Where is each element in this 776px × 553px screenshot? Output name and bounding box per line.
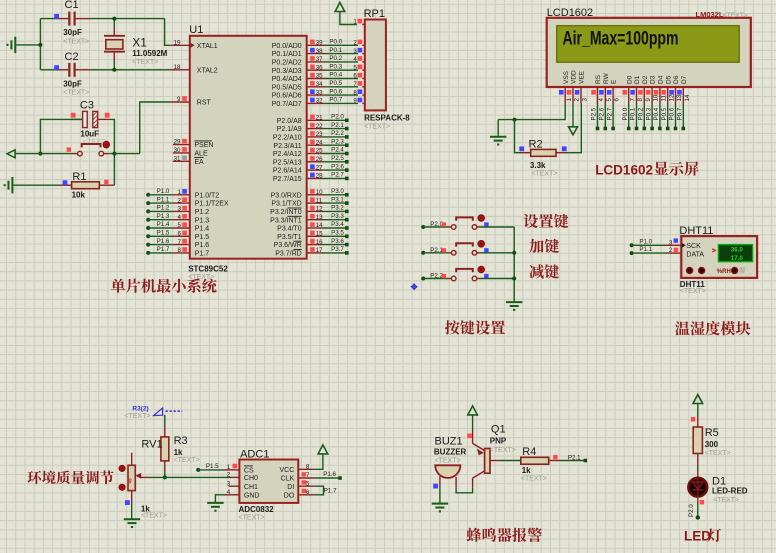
svg-text:3: 3 (669, 239, 673, 246)
svg-text:LED: LED (684, 529, 711, 544)
svg-text:28: 28 (316, 173, 323, 180)
svg-text:DATA: DATA (686, 251, 704, 258)
svg-text:P0.3: P0.3 (329, 63, 342, 70)
svg-text:P2.7: P2.7 (331, 172, 344, 179)
svg-text:D4: D4 (658, 75, 665, 84)
pin 30 ALE (173, 152, 190, 154)
svg-text:P2.1: P2.1 (430, 247, 443, 254)
svg-text:P1.5: P1.5 (195, 234, 210, 241)
svg-text:14: 14 (316, 222, 323, 229)
svg-text:P2.2/A10: P2.2/A10 (273, 135, 302, 142)
svg-text:P3.3: P3.3 (331, 213, 344, 220)
wire VEE to R2 (566, 104, 581, 153)
svg-text:P3.1/TXD: P3.1/TXD (271, 201, 301, 208)
svg-text:U1: U1 (189, 24, 203, 36)
svg-text:5: 5 (178, 222, 182, 229)
svg-text:C2: C2 (65, 51, 79, 63)
input terminal arrow (reset row) (7, 150, 15, 158)
svg-text:<TEXT>: <TEXT> (713, 497, 739, 504)
svg-text:P3.5/T1: P3.5/T1 (277, 234, 302, 241)
svg-text:P2.2: P2.2 (331, 130, 344, 137)
svg-text:RP1: RP1 (364, 8, 385, 20)
node junction X1 top (112, 17, 116, 21)
wire (39, 19, 41, 70)
label 蜂鸣器报警 (467, 528, 542, 542)
svg-text:SCK: SCK (686, 243, 701, 250)
svg-text:P3.6: P3.6 (331, 238, 344, 245)
ground (R1) (5, 177, 13, 193)
svg-text:P1.1: P1.1 (639, 246, 652, 253)
wire P0.7 to RP1 (325, 102, 359, 104)
push button (reset) (67, 147, 71, 151)
wire (91, 18, 165, 20)
ground (crystal section) (8, 37, 16, 53)
svg-text:P2.1: P2.1 (568, 454, 581, 461)
svg-text:45: 45 (128, 478, 134, 484)
DHT11 screw circles (687, 268, 693, 274)
svg-text:34: 34 (316, 81, 323, 88)
svg-text:P2.2: P2.2 (430, 273, 443, 280)
svg-text:RW: RW (603, 72, 610, 84)
svg-text:P2.6/A14: P2.6/A14 (273, 168, 302, 175)
svg-text:<TEXT>: <TEXT> (239, 514, 265, 521)
svg-text:LCD1602: LCD1602 (595, 162, 653, 177)
svg-text:<TEXT>: <TEXT> (521, 475, 547, 482)
svg-text:P3.2: P3.2 (331, 205, 344, 212)
svg-text:26: 26 (316, 156, 323, 163)
svg-text:1: 1 (566, 98, 573, 102)
pin 31 EA (173, 160, 190, 162)
pin 2 CH0 (229, 476, 239, 478)
svg-text:VEE: VEE (579, 70, 586, 84)
svg-text:4: 4 (178, 214, 182, 221)
svg-text:D1: D1 (712, 475, 726, 487)
node junction X1 bottom (112, 68, 116, 72)
power terminal (LED) (693, 395, 703, 404)
wire (109, 153, 140, 155)
svg-text:R3: R3 (174, 435, 188, 447)
svg-text:P0.3: P0.3 (645, 107, 652, 120)
push button 3 (key) (421, 277, 425, 281)
wire net P2.0 (697, 497, 699, 504)
diode D1 LED-RED (688, 478, 707, 497)
ground (ADC) (207, 503, 223, 511)
wire key bus (513, 227, 515, 302)
svg-text:8: 8 (353, 89, 357, 96)
wire net P1.1 (DHT DATA) (630, 251, 634, 255)
wire P0.6 to RP1 (325, 94, 359, 96)
node junction key2 (512, 251, 516, 255)
svg-text:CLK: CLK (281, 476, 295, 483)
svg-text:3: 3 (353, 48, 357, 55)
svg-text:10k: 10k (72, 190, 86, 199)
svg-text:P1.6: P1.6 (195, 242, 210, 249)
svg-text:3: 3 (227, 480, 231, 487)
svg-text:17: 17 (316, 247, 323, 254)
wire VDD to power (572, 104, 574, 127)
wire (40, 119, 82, 153)
svg-text:5: 5 (606, 98, 613, 102)
svg-text:3.3k: 3.3k (530, 161, 546, 170)
svg-text:P2.0: P2.0 (331, 114, 344, 121)
svg-text:ALE: ALE (194, 151, 208, 158)
svg-text:<TEXT>: <TEXT> (531, 171, 557, 178)
label 设置键 (524, 214, 569, 228)
svg-text:RV1: RV1 (141, 439, 162, 451)
svg-text:P3.1: P3.1 (331, 196, 344, 203)
wire net P0.7 (LCD D7) (682, 104, 684, 129)
wire (480, 252, 514, 254)
svg-text:12: 12 (668, 94, 675, 101)
wire R5 to D1 (697, 454, 699, 466)
svg-text:30: 30 (174, 147, 181, 154)
svg-text:22: 22 (316, 123, 323, 130)
label 单片机最小系统 (111, 279, 217, 293)
resistor R1 (12, 184, 59, 186)
svg-text:R1: R1 (72, 171, 86, 183)
svg-text:<TEXT>: <TEXT> (723, 12, 748, 19)
svg-text:P3.5: P3.5 (331, 230, 344, 237)
svg-text:P0.7: P0.7 (677, 107, 684, 120)
svg-text:23: 23 (316, 131, 323, 138)
wire net P1.6 (315, 477, 340, 479)
svg-text:CH1: CH1 (244, 484, 258, 491)
svg-text:17.0: 17.0 (731, 255, 743, 262)
svg-text:6: 6 (178, 231, 182, 238)
wire (110, 119, 115, 185)
svg-text:10: 10 (316, 189, 323, 196)
svg-text:10: 10 (653, 94, 660, 101)
pin 8 P1.7 wire (146, 251, 150, 255)
wire (91, 69, 171, 71)
svg-text:9: 9 (645, 98, 652, 102)
svg-text:37: 37 (316, 56, 323, 63)
svg-text:35: 35 (316, 73, 323, 80)
svg-text:33: 33 (316, 89, 323, 96)
DHT11 display (718, 245, 752, 262)
svg-text:1: 1 (178, 189, 182, 196)
wire net P2.1 (323, 128, 347, 130)
svg-text:1: 1 (227, 464, 231, 471)
wire net P1.5 (ADC CS) (196, 468, 200, 472)
wire P0.2 to RP1 (325, 61, 359, 63)
pin 1 P1.0 wire (146, 193, 150, 197)
svg-text:P0.7/AD7: P0.7/AD7 (272, 101, 302, 108)
svg-text:P3.7/RD: P3.7/RD (275, 251, 301, 258)
svg-text:PSEN: PSEN (194, 142, 213, 149)
wire (480, 226, 514, 228)
svg-text:DHT11: DHT11 (679, 225, 713, 237)
svg-text:12: 12 (316, 206, 323, 213)
svg-text:RESPACK-8: RESPACK-8 (364, 114, 410, 123)
node junction C1/C2 branch (38, 43, 42, 47)
crystal X1 (113, 19, 115, 28)
svg-text:11.0592M: 11.0592M (132, 49, 167, 58)
svg-text:6: 6 (614, 98, 621, 102)
svg-text:P0.3/AD3: P0.3/AD3 (272, 68, 302, 75)
svg-text:P0.4: P0.4 (653, 107, 660, 120)
svg-text:P1.2: P1.2 (157, 205, 170, 212)
svg-text:P1.7: P1.7 (157, 246, 170, 253)
svg-text:P1.0: P1.0 (157, 188, 170, 195)
svg-text:P2.5: P2.5 (331, 155, 344, 162)
pin 18 XTAL2 (170, 69, 190, 71)
capacitor C3 (71, 113, 76, 118)
ground (buzzer) (432, 504, 448, 512)
svg-text:P1.6: P1.6 (157, 238, 170, 245)
svg-text:30pF: 30pF (63, 28, 82, 37)
svg-text:%RH: %RH (717, 269, 731, 275)
pin 5 P1.4 wire (146, 226, 150, 230)
svg-text:X1: X1 (132, 36, 147, 50)
svg-text:BUZ1: BUZ1 (435, 435, 463, 447)
svg-text:7: 7 (306, 472, 310, 479)
svg-text:P0.0: P0.0 (622, 107, 629, 120)
svg-text:6: 6 (306, 489, 310, 496)
svg-text:R4: R4 (522, 446, 536, 458)
svg-text:P3.0: P3.0 (331, 188, 344, 195)
svg-text:CS: CS (244, 468, 254, 475)
svg-text:21: 21 (316, 115, 323, 122)
svg-text:E: E (611, 79, 618, 84)
wire XTAL1 feed (165, 19, 171, 46)
svg-text:9: 9 (353, 98, 357, 105)
svg-text:P3.3/INT1: P3.3/INT1 (270, 217, 302, 224)
svg-text:1: 1 (353, 19, 357, 26)
svg-text:2: 2 (227, 472, 231, 479)
wire base to R4 (500, 460, 521, 462)
svg-text:ADC1: ADC1 (240, 449, 269, 461)
power terminal (ADC VCC) (318, 445, 328, 454)
svg-text:Q1: Q1 (491, 423, 506, 435)
wire net P2.6 (323, 169, 347, 171)
svg-text:39: 39 (316, 40, 323, 47)
svg-text:P2.4: P2.4 (331, 147, 344, 154)
wire emitter (472, 431, 474, 444)
capacitor C1 (40, 18, 58, 20)
label 减键 (529, 264, 559, 278)
node junction VSS/R2 (513, 118, 517, 122)
resistor R3 (164, 415, 166, 428)
svg-text:15: 15 (316, 231, 323, 238)
svg-text:<TEXT>: <TEXT> (188, 274, 214, 281)
wire net P2.3 (323, 144, 347, 146)
svg-text:P0.5/AD5: P0.5/AD5 (272, 84, 302, 91)
svg-text:14: 14 (684, 94, 691, 101)
svg-text:2: 2 (353, 40, 357, 47)
svg-text:P1.0: P1.0 (639, 238, 652, 245)
wire net P3.1 (323, 202, 347, 204)
wire net P2.7 (323, 177, 347, 179)
wire P0.0 to RP1 (325, 44, 359, 46)
svg-text:1k: 1k (174, 448, 183, 457)
svg-text:EA: EA (194, 159, 204, 166)
svg-text:P2.6: P2.6 (331, 163, 344, 170)
svg-text:27: 27 (316, 164, 323, 171)
origin marker (blue diamond) (411, 283, 418, 290)
svg-text:D7: D7 (681, 75, 688, 84)
wire VSS to ground (498, 104, 565, 120)
potentiometer RV1 (131, 453, 133, 466)
label 环境质量调节 (27, 470, 113, 484)
svg-text:<TEXT>: <TEXT> (124, 413, 150, 420)
pin 3 P1.2 wire (146, 209, 150, 213)
wire net P2.5 (LCD RS) (597, 104, 599, 129)
svg-text:P0.6/AD6: P0.6/AD6 (272, 93, 302, 100)
wire net P2.0 (323, 119, 347, 121)
svg-text:P1.5: P1.5 (157, 230, 170, 237)
wire net P0.2 (LCD D2) (643, 104, 645, 129)
wire net P0.3 (LCD D3) (651, 104, 653, 129)
wire net P0.4 (LCD D4) (659, 104, 661, 129)
svg-text:P2.0: P2.0 (688, 504, 695, 517)
LCD screen (557, 26, 740, 63)
pin 6 P1.5 wire (146, 234, 150, 238)
svg-text:PNP: PNP (490, 436, 507, 445)
wire net P3.4 (323, 227, 347, 229)
svg-text:D6: D6 (673, 75, 680, 84)
svg-text:P1.5: P1.5 (206, 463, 219, 470)
wire net P2.4 (323, 153, 347, 155)
wire net P3.2 (323, 210, 347, 212)
svg-text:RST: RST (197, 100, 212, 107)
svg-text:P2.7/A15: P2.7/A15 (273, 176, 302, 183)
svg-text:7: 7 (629, 98, 636, 102)
svg-text:VSS: VSS (563, 70, 570, 84)
svg-text:2: 2 (574, 98, 581, 102)
capacitor C2 (40, 69, 58, 71)
svg-text:29: 29 (174, 139, 181, 146)
svg-text:<TEXT>: <TEXT> (705, 450, 731, 457)
wire net P3.5 (323, 235, 347, 237)
svg-text:P3.4: P3.4 (331, 221, 344, 228)
svg-text:LM032L: LM032L (696, 10, 724, 19)
svg-text:5: 5 (353, 64, 357, 71)
svg-text:36: 36 (316, 64, 323, 71)
wire net P2.2 (323, 136, 347, 138)
svg-text:P1.7: P1.7 (195, 251, 210, 258)
wire GND to ground (215, 495, 224, 503)
svg-text:19: 19 (174, 39, 181, 46)
resistor R4 (521, 457, 549, 464)
power terminal (Q1) (468, 406, 478, 415)
svg-text:R2: R2 (529, 138, 543, 150)
svg-text:3: 3 (582, 98, 589, 102)
wire VCC to power (315, 453, 323, 469)
pin 7 P1.6 wire (146, 243, 150, 247)
wire P0.3 to RP1 (325, 69, 359, 71)
svg-text:18: 18 (174, 64, 181, 71)
svg-text:4: 4 (598, 98, 605, 102)
svg-text:11: 11 (316, 197, 323, 204)
svg-text:P1.6: P1.6 (323, 471, 336, 478)
svg-text:P0.2: P0.2 (638, 107, 645, 120)
transistor Q1 PNP (473, 443, 485, 450)
node junction key3 (512, 277, 516, 281)
svg-text:P2.0/A8: P2.0/A8 (277, 118, 302, 125)
wire buzzer to ground (439, 486, 441, 504)
svg-text:16: 16 (316, 239, 323, 246)
svg-text:8: 8 (178, 247, 182, 254)
svg-text:D0: D0 (626, 75, 633, 84)
svg-text:VDD: VDD (571, 70, 578, 84)
svg-text:GND: GND (244, 493, 260, 500)
svg-text:DO: DO (284, 492, 295, 499)
DHT11 pin 3 SCK (664, 244, 681, 246)
buzzer BUZ1 (435, 465, 460, 478)
svg-text:<TEXT>: <TEXT> (174, 457, 200, 464)
svg-text:STC89C52: STC89C52 (188, 265, 228, 274)
svg-text:25: 25 (316, 148, 323, 155)
svg-text:XTAL1: XTAL1 (197, 43, 218, 50)
svg-text:13: 13 (316, 214, 323, 221)
svg-text:8: 8 (306, 463, 310, 470)
svg-text:P2.1/A9: P2.1/A9 (277, 126, 302, 133)
svg-text:<TEXT>: <TEXT> (435, 458, 461, 465)
svg-text:<TEXT>: <TEXT> (680, 288, 706, 295)
svg-text:P2.6: P2.6 (599, 107, 606, 120)
svg-text:P0.5: P0.5 (661, 107, 668, 120)
wire RV1 wiper to ADC CH0 (149, 476, 229, 478)
svg-text:P0.1: P0.1 (630, 107, 637, 120)
svg-text:P0.2/AD2: P0.2/AD2 (272, 60, 302, 67)
ground (LCD VSS) (490, 137, 506, 145)
svg-text:9: 9 (177, 96, 181, 103)
svg-text:11: 11 (661, 95, 668, 102)
LCD LM032L body (547, 18, 751, 87)
DHT11 grey glyph (739, 267, 745, 273)
wire net P0.6 (LCD D6) (675, 104, 677, 129)
wire net P3.3 (323, 219, 347, 221)
svg-text:2: 2 (178, 197, 182, 204)
DHT11 pin 2 DATA (668, 252, 681, 254)
wire collector to buzzer (456, 488, 473, 493)
svg-text:D3: D3 (650, 75, 657, 84)
svg-text:38: 38 (316, 48, 323, 55)
svg-text:P0.4: P0.4 (329, 72, 342, 79)
svg-text:RS: RS (595, 74, 602, 84)
svg-text:P2.3/A11: P2.3/A11 (273, 143, 301, 150)
pin 29 PSEN (173, 144, 190, 146)
wire net P3.7 (323, 252, 347, 254)
svg-text:P1.4: P1.4 (195, 226, 210, 233)
svg-text:P3.4/T0: P3.4/T0 (277, 226, 302, 233)
svg-text:<TEXT>: <TEXT> (63, 90, 89, 97)
svg-text:R5: R5 (705, 427, 719, 439)
svg-text:10uF: 10uF (80, 130, 99, 139)
svg-text:Air_Max=100ppm: Air_Max=100ppm (563, 28, 679, 50)
push button 1 (key) (421, 225, 425, 229)
ADC ADC1 chip body (239, 460, 298, 503)
svg-text:P0.6: P0.6 (669, 107, 676, 120)
ground (keys) (506, 302, 522, 310)
svg-text:P0.2: P0.2 (329, 55, 342, 62)
svg-text:<TEXT>: <TEXT> (364, 124, 390, 131)
svg-text:P1.4: P1.4 (157, 221, 170, 228)
wire net P2.5 (323, 161, 347, 163)
wire net P2.7 (LCD E) (612, 104, 614, 129)
svg-text:D1: D1 (634, 75, 641, 84)
wire (15, 153, 72, 155)
svg-text:P2.1: P2.1 (331, 122, 344, 129)
svg-text:P1.1: P1.1 (157, 196, 170, 203)
svg-text:CH0: CH0 (244, 475, 258, 482)
pin 9 RST (170, 101, 190, 103)
wire net P0.1 (LCD D1) (636, 104, 638, 129)
svg-text:LED-RED: LED-RED (712, 487, 748, 496)
svg-text:C1: C1 (65, 0, 79, 11)
pin 1 CS (224, 469, 239, 471)
